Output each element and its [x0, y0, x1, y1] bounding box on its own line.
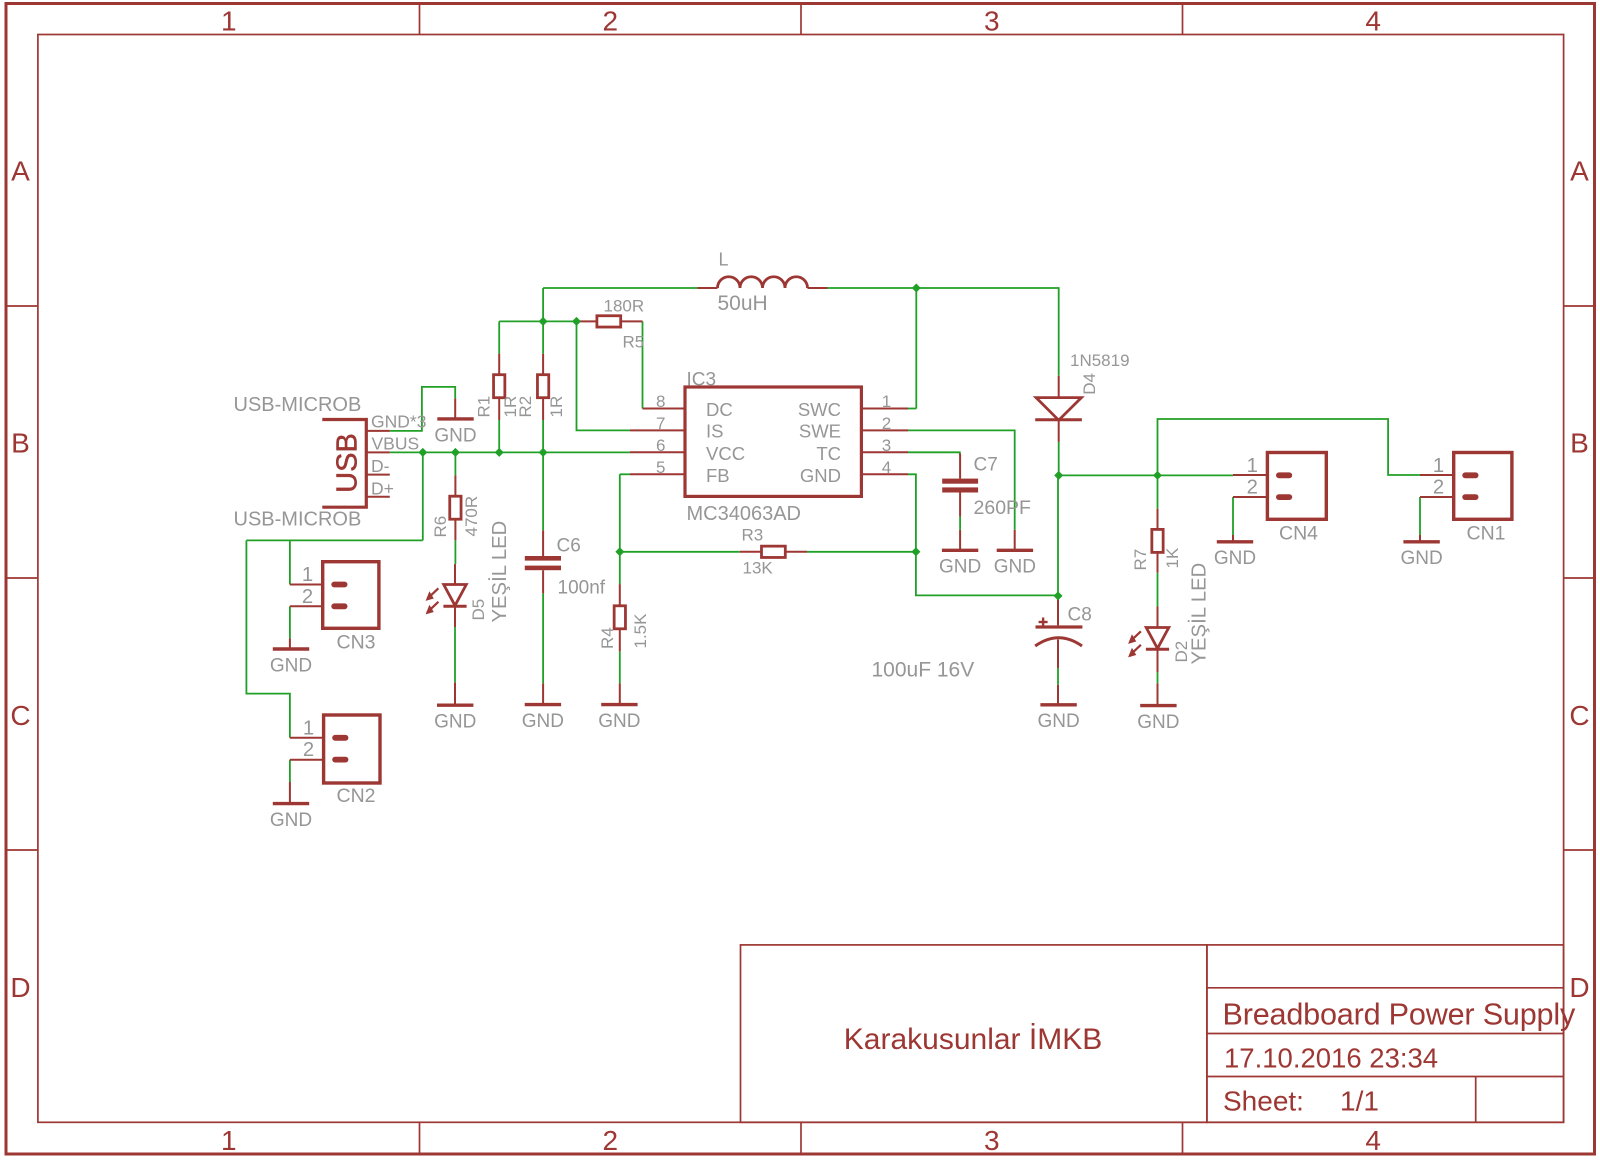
- wire C7 to ground: [959, 517, 961, 530]
- svg-text:1N5819: 1N5819: [1070, 351, 1130, 370]
- svg-text:USB-MICROB: USB-MICROB: [234, 394, 362, 416]
- wire down to R1R2 rail: [542, 288, 544, 321]
- pin D4 anode: [1058, 376, 1060, 398]
- ground D2: [1137, 706, 1179, 733]
- svg-text:Breadboard Power Supply: Breadboard Power Supply: [1223, 997, 1576, 1031]
- frame column tick top: [800, 4, 802, 35]
- svg-text:R4: R4: [598, 627, 617, 649]
- pin CN3 1: [290, 584, 323, 586]
- svg-text:VBUS: VBUS: [372, 434, 420, 454]
- svg-text:D4: D4: [1080, 373, 1099, 395]
- wire R4 to ground: [619, 651, 621, 683]
- svg-text:3: 3: [984, 1125, 1000, 1156]
- pin VBUS: [368, 451, 390, 453]
- svg-text:1: 1: [882, 392, 891, 411]
- svg-text:260PF: 260PF: [974, 497, 1032, 519]
- svg-text:2: 2: [1247, 477, 1258, 499]
- svg-text:C: C: [1569, 700, 1589, 731]
- svg-text:IS: IS: [706, 421, 723, 442]
- wire to CN3 pin1: [289, 540, 291, 584]
- pin GND*3: [368, 430, 390, 432]
- wire FB pin5: [620, 473, 630, 475]
- svg-text:SWE: SWE: [799, 421, 841, 442]
- junction VBUS 3: [495, 448, 504, 457]
- svg-text:GND*3: GND*3: [371, 412, 426, 432]
- pin R2 bottom: [542, 398, 544, 420]
- svg-text:GND: GND: [270, 810, 312, 831]
- pin R3 right: [785, 551, 807, 553]
- wire D4 to output node: [1058, 442, 1060, 476]
- pin L left: [698, 287, 718, 289]
- ground stub CN4: [1232, 535, 1234, 542]
- pin R4 bottom: [619, 629, 621, 652]
- wire FB to R3: [620, 551, 740, 553]
- pin IC3 3: [861, 451, 908, 453]
- svg-text:2: 2: [603, 1125, 619, 1156]
- svg-text:CN2: CN2: [337, 785, 376, 807]
- wire R7 to D2: [1157, 573, 1159, 607]
- ground CN1: [1400, 542, 1442, 569]
- svg-text:C: C: [10, 700, 30, 731]
- svg-text:180R: 180R: [604, 297, 645, 316]
- connector CN1: [1433, 453, 1512, 545]
- ground SWE: [994, 550, 1036, 577]
- svg-text:GND: GND: [1037, 711, 1079, 732]
- junction VBUS 1: [418, 448, 427, 457]
- capacitor C7 260PF: [942, 479, 978, 493]
- wire CN1 pin2 to ground: [1419, 497, 1421, 535]
- frame row tick right: [1564, 849, 1595, 851]
- svg-text:GND: GND: [522, 711, 564, 732]
- title block row line 3: [1207, 1076, 1564, 1078]
- wire to CN2 pin1: [246, 540, 290, 737]
- svg-text:USB: USB: [332, 433, 364, 493]
- svg-text:Sheet:: Sheet:: [1223, 1086, 1304, 1117]
- pin CN3 2: [290, 605, 323, 607]
- junction SWC: [912, 284, 921, 293]
- svg-text:GND: GND: [800, 465, 841, 486]
- resistor R5: [597, 316, 621, 327]
- pin R3 left: [740, 551, 762, 553]
- capacitor C8 100uF: [1035, 618, 1082, 647]
- wire SWC pin1 riser: [915, 288, 917, 409]
- wire CN2 pin2 to ground: [289, 760, 291, 782]
- wire to R4: [619, 552, 621, 584]
- pin D-: [368, 474, 390, 476]
- junction rail IS: [572, 317, 581, 326]
- svg-text:YEŞİL LED: YEŞİL LED: [488, 521, 511, 623]
- svg-text:CN1: CN1: [1467, 523, 1506, 545]
- pin L right: [808, 287, 828, 289]
- svg-text:1R: 1R: [547, 396, 566, 418]
- ground stub C7: [959, 530, 961, 551]
- wire VBUS down: [422, 452, 424, 540]
- svg-text:D5: D5: [469, 599, 488, 621]
- svg-text:13K: 13K: [743, 559, 774, 578]
- svg-text:2: 2: [1433, 477, 1444, 499]
- pin R2 top: [542, 354, 544, 375]
- ground stub C6: [542, 683, 544, 704]
- svg-text:2: 2: [603, 6, 619, 37]
- pin R6 bottom: [454, 519, 456, 540]
- resistor R4: [614, 606, 625, 629]
- pin D2 cathode: [1157, 649, 1159, 672]
- wire R2 top: [542, 321, 544, 353]
- pin C7 bottom: [959, 493, 961, 517]
- pin R5 left: [577, 320, 597, 322]
- pin D5 cathode: [454, 606, 456, 627]
- title block info box: [1207, 945, 1564, 1122]
- pin C8 bottom: [1057, 640, 1059, 669]
- svg-text:A: A: [1570, 155, 1589, 186]
- wire CN4 pin2 to ground: [1232, 497, 1234, 535]
- wire R5 to DC pin8: [642, 321, 644, 408]
- ground R4: [598, 705, 640, 732]
- ground C7: [939, 550, 981, 577]
- frame row tick right: [1564, 305, 1595, 307]
- svg-text:GND: GND: [939, 557, 981, 578]
- pin C8 top: [1057, 596, 1059, 626]
- svg-text:SWC: SWC: [798, 399, 841, 420]
- pin IC3 7: [630, 429, 685, 431]
- svg-text:MC34063AD: MC34063AD: [687, 503, 802, 525]
- pin R1 bottom: [498, 398, 500, 420]
- svg-text:Karakusunlar İMKB: Karakusunlar İMKB: [844, 1023, 1102, 1056]
- wire FB down: [619, 474, 621, 552]
- resistor R7: [1152, 529, 1163, 552]
- wire SWE pin2 to ground: [908, 430, 1015, 529]
- svg-text:DC: DC: [706, 399, 733, 420]
- wire output down to C8: [1057, 475, 1059, 596]
- junction output 1: [1054, 471, 1063, 480]
- ground near USB: [434, 419, 476, 446]
- wire VBUS rail to VCC: [390, 451, 630, 453]
- svg-text:VCC: VCC: [706, 443, 745, 464]
- frame column tick top: [1182, 4, 1184, 35]
- connector CN4: [1247, 453, 1327, 545]
- pin C7 top: [959, 454, 961, 479]
- svg-text:1: 1: [221, 1125, 237, 1156]
- svg-text:A: A: [11, 155, 30, 186]
- junction FB: [615, 547, 624, 556]
- svg-text:1: 1: [1247, 455, 1258, 477]
- wire R6 top: [454, 452, 456, 475]
- svg-text:R5: R5: [623, 333, 645, 352]
- pin CN2 2: [290, 759, 324, 761]
- pin R5 right: [621, 320, 642, 322]
- pin D4 cathode: [1058, 420, 1060, 442]
- wire CN3 pin2 to ground: [289, 606, 291, 638]
- title block row line 1: [1207, 987, 1564, 989]
- svg-text:1/1: 1/1: [1340, 1086, 1379, 1117]
- frame row tick left: [6, 305, 38, 307]
- svg-text:FB: FB: [706, 465, 730, 486]
- pin D+: [368, 496, 390, 498]
- frame row tick left: [6, 577, 38, 579]
- ground stub R4: [619, 683, 621, 704]
- pin C6 bottom: [542, 570, 544, 593]
- svg-text:1: 1: [221, 6, 237, 37]
- frame column tick bottom: [1182, 1122, 1184, 1154]
- wire output to CN4 pin1: [1059, 474, 1233, 476]
- pin IC3 2: [861, 429, 908, 431]
- frame column tick bottom: [419, 1122, 421, 1154]
- svg-text:GND: GND: [434, 712, 476, 733]
- svg-text:100nf: 100nf: [558, 578, 606, 599]
- ground CN2: [270, 804, 312, 831]
- wire to CN3 CN2: [246, 539, 422, 541]
- wire C6 to ground: [542, 593, 544, 683]
- frame column tick top: [419, 4, 421, 35]
- ground CN3: [270, 649, 312, 676]
- wire R1 bottom: [498, 420, 500, 452]
- wire L output to D4: [828, 288, 1059, 376]
- svg-text:GND: GND: [434, 425, 476, 446]
- connector CN3: [302, 562, 379, 654]
- LED D2: [1128, 628, 1169, 658]
- svg-text:GND: GND: [598, 711, 640, 732]
- ground CN4: [1214, 542, 1256, 569]
- pin CN2 1: [290, 737, 324, 739]
- diode D4 1N5819: [1035, 398, 1082, 421]
- resistor R2: [537, 375, 548, 398]
- connector CN2: [303, 715, 380, 807]
- svg-text:3: 3: [882, 436, 891, 455]
- resistor R3: [762, 546, 786, 557]
- wire C6 top: [542, 452, 544, 530]
- svg-text:4: 4: [1365, 6, 1381, 37]
- ground stub USB: [454, 398, 456, 419]
- wire L input: [543, 287, 697, 289]
- svg-text:1: 1: [302, 564, 313, 586]
- ground C6: [522, 705, 564, 732]
- svg-text:2: 2: [303, 739, 314, 761]
- pin IC3 4: [861, 473, 908, 475]
- svg-text:YEŞİL LED: YEŞİL LED: [1188, 563, 1211, 665]
- ground stub D2: [1157, 683, 1159, 705]
- inductor L 50uH: [718, 277, 808, 288]
- svg-text:D-: D-: [371, 456, 390, 476]
- wire C8 to ground: [1057, 668, 1059, 685]
- svg-text:GND: GND: [270, 655, 312, 676]
- pin CN4 1: [1233, 474, 1267, 476]
- pin R7 bottom: [1157, 552, 1159, 572]
- title block owner box: [741, 945, 1207, 1122]
- svg-text:C8: C8: [1068, 605, 1092, 626]
- wire TC pin3 to C7: [908, 452, 960, 455]
- pin IC3 1: [861, 408, 908, 410]
- svg-text:CN3: CN3: [337, 632, 376, 654]
- LED D5: [426, 585, 467, 615]
- wire output to CN1 pin1: [1158, 419, 1421, 475]
- junction VBUS 2: [451, 448, 460, 457]
- svg-text:6: 6: [656, 436, 665, 455]
- svg-text:17.10.2016 23:34: 17.10.2016 23:34: [1224, 1043, 1438, 1074]
- wire R7 top: [1157, 475, 1159, 508]
- svg-text:470R: 470R: [462, 496, 481, 537]
- frame row tick left: [6, 849, 38, 851]
- wire R3 to GND pin4 net: [807, 551, 916, 553]
- wire rail to IS pin7: [577, 321, 631, 430]
- svg-text:GND: GND: [994, 557, 1036, 578]
- svg-text:B: B: [1570, 428, 1589, 459]
- ground stub SWE: [1014, 530, 1016, 551]
- svg-text:R7: R7: [1131, 549, 1150, 571]
- capacitor C6 100nf: [525, 556, 561, 570]
- svg-text:2: 2: [302, 586, 313, 608]
- pin IC3 6: [630, 451, 685, 453]
- svg-text:D: D: [10, 972, 30, 1003]
- wire GND pin4 to C8 node: [908, 474, 1058, 595]
- wire GND*3 to ground: [390, 387, 455, 431]
- pin D5 anode: [454, 564, 456, 584]
- pin R4 top: [619, 584, 621, 606]
- wire D5 to ground: [454, 627, 456, 683]
- wire D2 to ground: [1157, 672, 1159, 683]
- ground D5: [434, 705, 476, 732]
- svg-text:2: 2: [882, 414, 891, 433]
- resistor R1: [494, 375, 505, 398]
- wire R2 bottom: [542, 420, 544, 452]
- pin R1 top: [498, 354, 500, 375]
- svg-text:4: 4: [1365, 1125, 1381, 1156]
- svg-text:1: 1: [303, 717, 314, 739]
- ground stub CN2: [289, 782, 291, 804]
- svg-text:USB-MICROB: USB-MICROB: [234, 509, 362, 531]
- svg-text:GND: GND: [1400, 548, 1442, 569]
- svg-text:R6: R6: [431, 516, 450, 538]
- wire R1R2 rail: [499, 320, 576, 322]
- pin D2 anode: [1157, 606, 1159, 627]
- svg-text:8: 8: [656, 392, 665, 411]
- svg-text:4: 4: [882, 458, 891, 477]
- wire R1 top: [498, 321, 500, 353]
- ground stub C8: [1057, 685, 1059, 705]
- pin R6 top: [454, 475, 456, 496]
- pin C6 top: [542, 530, 544, 556]
- resistor R6: [450, 496, 461, 519]
- ground stub CN3: [289, 638, 291, 649]
- frame column tick bottom: [800, 1122, 802, 1154]
- pin CN1 1: [1420, 474, 1454, 476]
- svg-text:1K: 1K: [1163, 547, 1182, 568]
- svg-text:50uH: 50uH: [718, 292, 768, 315]
- svg-text:GND: GND: [1137, 712, 1179, 733]
- svg-text:1: 1: [1433, 455, 1444, 477]
- svg-text:TC: TC: [816, 443, 841, 464]
- svg-text:B: B: [11, 428, 30, 459]
- junction output 2: [1153, 471, 1162, 480]
- svg-text:R2: R2: [516, 396, 535, 418]
- svg-text:5: 5: [656, 458, 665, 477]
- svg-text:CN4: CN4: [1279, 523, 1318, 545]
- svg-text:C6: C6: [557, 536, 581, 557]
- junction C8: [1054, 591, 1063, 600]
- ground stub CN1: [1419, 535, 1421, 542]
- pin R7 top: [1157, 509, 1159, 530]
- connector USB (USB-MICROB): [322, 420, 366, 508]
- wire R6 to D5: [454, 540, 456, 564]
- title block row line 2: [1207, 1033, 1564, 1035]
- junction pin4 net: [911, 547, 920, 556]
- junction VBUS 4: [539, 448, 548, 457]
- svg-text:R3: R3: [742, 526, 764, 545]
- svg-text:1.5K: 1.5K: [631, 613, 650, 649]
- pin CN4 2: [1233, 496, 1267, 498]
- svg-text:100uF 16V: 100uF 16V: [872, 659, 975, 682]
- svg-text:GND: GND: [1214, 548, 1256, 569]
- wire pin1 stub joint: [908, 408, 916, 410]
- svg-text:L: L: [719, 250, 729, 270]
- svg-text:R1: R1: [475, 396, 494, 418]
- svg-text:C7: C7: [974, 455, 998, 476]
- ground C8: [1037, 705, 1079, 732]
- frame row tick right: [1564, 577, 1595, 579]
- svg-text:7: 7: [656, 414, 665, 433]
- svg-text:IC3: IC3: [687, 370, 717, 391]
- junction rail R2: [539, 317, 548, 326]
- ground stub D5: [454, 683, 456, 706]
- pin CN1 2: [1420, 496, 1454, 498]
- pin IC3 5: [630, 473, 685, 475]
- pin IC3 8: [643, 408, 686, 410]
- svg-text:D+: D+: [371, 479, 394, 499]
- op-amp U IC3 MC34063AD box: [685, 387, 861, 496]
- title block sheet divider: [1475, 1077, 1477, 1123]
- svg-text:3: 3: [984, 6, 1000, 37]
